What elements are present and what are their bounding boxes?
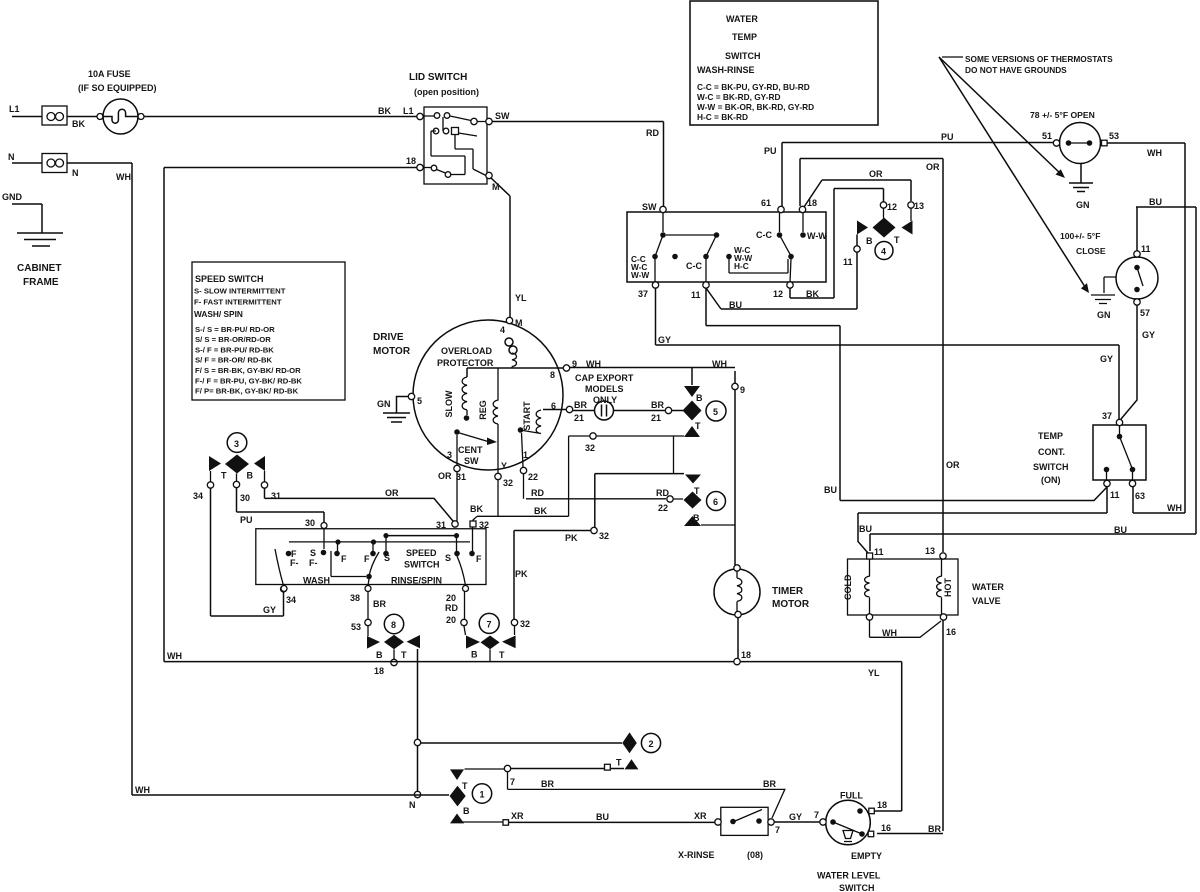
svg-text:N: N [72,168,79,178]
svg-text:PU: PU [764,146,777,156]
svg-text:GND: GND [2,192,23,202]
svg-text:21: 21 [651,413,661,423]
svg-text:C-C: C-C [686,261,702,271]
svg-text:SWITCH: SWITCH [839,883,875,892]
svg-text:SWITCH: SWITCH [1033,462,1069,472]
svg-text:12: 12 [887,202,897,212]
svg-text:S: S [384,553,390,563]
svg-text:COLD: COLD [843,574,853,600]
svg-text:BK: BK [72,119,85,129]
svg-text:SWITCH: SWITCH [404,560,440,570]
svg-text:N: N [409,800,416,810]
svg-text:WASH/ SPIN: WASH/ SPIN [194,309,243,319]
svg-text:11: 11 [1141,244,1151,254]
svg-text:16: 16 [881,823,891,833]
svg-text:5: 5 [417,396,422,406]
svg-text:H-C = BK-RD: H-C = BK-RD [697,112,748,122]
svg-text:10A FUSE: 10A FUSE [88,69,131,79]
svg-text:MODELS: MODELS [585,384,624,394]
svg-text:6: 6 [713,497,718,507]
svg-text:GN: GN [1076,200,1090,210]
svg-text:PK: PK [565,533,578,543]
svg-text:OR: OR [385,488,399,498]
svg-text:32: 32 [503,478,513,488]
svg-text:T: T [616,758,622,768]
svg-text:BU: BU [859,524,872,534]
svg-text:CABINET: CABINET [17,263,61,274]
svg-text:SLOW: SLOW [444,390,454,418]
svg-text:B: B [247,471,254,481]
svg-text:S: S [310,548,316,558]
svg-text:WH: WH [882,628,897,638]
svg-text:7: 7 [487,620,492,630]
svg-text:18: 18 [374,666,384,676]
svg-text:B: B [376,650,383,660]
svg-text:T: T [499,650,505,660]
svg-text:WH: WH [1167,503,1182,513]
svg-text:START: START [522,401,532,431]
svg-text:SPEED: SPEED [406,548,437,558]
svg-text:53: 53 [351,622,361,632]
svg-text:F: F [341,554,347,564]
svg-text:GN: GN [377,399,391,409]
svg-text:WH: WH [135,785,150,795]
svg-text:BK: BK [378,106,391,116]
svg-text:7: 7 [775,825,780,835]
svg-text:T: T [462,781,468,791]
svg-text:F: F [476,554,482,564]
svg-text:B: B [463,806,470,816]
svg-text:SOME VERSIONS OF THERMOSTATS: SOME VERSIONS OF THERMOSTATS [965,54,1113,64]
svg-text:F-: F- [290,558,299,568]
svg-text:GN: GN [1097,310,1111,320]
svg-text:TEMP: TEMP [1038,431,1063,441]
svg-text:T: T [894,235,900,245]
svg-text:PU: PU [941,132,954,142]
svg-text:N: N [8,152,15,162]
svg-text:PK: PK [515,569,528,579]
svg-text:30: 30 [240,493,250,503]
svg-text:WATER: WATER [726,14,758,24]
svg-text:B: B [696,393,703,403]
svg-text:(08): (08) [747,850,763,860]
svg-text:SW: SW [464,456,479,466]
svg-text:F-/ F = BR-PU, GY-BK/ RD-BK: F-/ F = BR-PU, GY-BK/ RD-BK [195,377,302,386]
svg-text:S/ S = BR-OR/RD-OR: S/ S = BR-OR/RD-OR [195,335,271,344]
svg-text:WATER: WATER [972,582,1004,592]
svg-text:VALVE: VALVE [972,596,1001,606]
svg-text:WASH: WASH [303,576,330,586]
svg-text:XR: XR [694,811,707,821]
svg-text:BU: BU [1114,525,1127,535]
svg-text:(ON): (ON) [1041,475,1061,485]
svg-text:37: 37 [1102,411,1112,421]
svg-text:16: 16 [946,627,956,637]
svg-text:TEMP: TEMP [732,32,757,42]
svg-text:GY: GY [263,605,276,615]
svg-text:DRIVE: DRIVE [373,332,404,343]
svg-text:WH: WH [116,172,131,182]
svg-text:53: 53 [1109,131,1119,141]
svg-text:2: 2 [649,739,654,749]
svg-text:GY: GY [1100,354,1113,364]
svg-text:T: T [221,471,227,481]
svg-text:22: 22 [658,503,668,513]
svg-text:18: 18 [741,650,751,660]
svg-text:WATER LEVEL: WATER LEVEL [817,871,881,881]
svg-text:18: 18 [406,156,416,166]
svg-text:5: 5 [713,407,718,417]
svg-text:BR: BR [541,779,554,789]
svg-text:BK: BK [470,504,483,514]
svg-text:11: 11 [691,290,701,300]
svg-text:EMPTY: EMPTY [851,851,882,861]
svg-text:LID SWITCH: LID SWITCH [409,72,467,83]
svg-text:12: 12 [773,289,783,299]
svg-text:WH: WH [167,651,182,661]
svg-text:78 +/- 5°F OPEN: 78 +/- 5°F OPEN [1030,110,1095,120]
svg-text:C-C = BK-PU, GY-RD, BU-RD: C-C = BK-PU, GY-RD, BU-RD [697,82,810,92]
svg-text:W-W: W-W [631,270,649,280]
svg-text:DO NOT HAVE GROUNDS: DO NOT HAVE GROUNDS [965,65,1067,75]
svg-text:B: B [866,236,873,246]
svg-text:L1: L1 [403,106,414,116]
svg-text:1: 1 [523,450,528,460]
svg-text:9: 9 [740,385,745,395]
svg-text:CLOSE: CLOSE [1076,246,1106,256]
svg-text:XR: XR [511,811,524,821]
svg-text:11: 11 [1110,490,1120,500]
svg-text:OR: OR [869,169,883,179]
svg-text:57: 57 [1140,308,1150,318]
svg-text:BR: BR [763,779,776,789]
svg-text:34: 34 [193,491,203,501]
svg-text:22: 22 [528,472,538,482]
svg-text:63: 63 [1135,491,1145,501]
svg-text:TIMER: TIMER [772,586,804,597]
svg-text:F/ S = BR-BK, GY-BK/ RD-OR: F/ S = BR-BK, GY-BK/ RD-OR [195,366,301,375]
svg-text:WASH-RINSE: WASH-RINSE [697,65,755,75]
svg-text:51: 51 [1042,131,1052,141]
svg-text:3: 3 [447,450,452,460]
svg-text:34: 34 [286,595,296,605]
svg-text:13: 13 [925,546,935,556]
svg-text:F- FAST INTERMITTENT: F- FAST INTERMITTENT [194,298,282,307]
svg-text:38: 38 [350,593,360,603]
svg-text:CAP EXPORT: CAP EXPORT [575,373,634,383]
svg-text:C-C: C-C [756,230,772,240]
svg-text:MOTOR: MOTOR [772,599,810,610]
svg-text:FULL: FULL [840,791,863,801]
svg-text:BR: BR [928,824,941,834]
svg-text:REG: REG [478,400,488,420]
svg-text:S- SLOW INTERMITTENT: S- SLOW INTERMITTENT [194,287,286,296]
svg-text:CONT.: CONT. [1038,447,1065,457]
svg-text:GY: GY [658,335,671,345]
svg-text:8: 8 [391,620,396,630]
svg-text:BR: BR [651,400,664,410]
svg-text:13: 13 [914,201,924,211]
svg-text:M: M [515,318,523,328]
svg-text:(open position): (open position) [414,87,479,97]
svg-text:BU: BU [596,812,609,822]
svg-text:3: 3 [234,439,239,449]
svg-text:31: 31 [271,491,281,501]
svg-text:RD: RD [531,488,544,498]
svg-text:S-/ F = BR-PU/ RD-BK: S-/ F = BR-PU/ RD-BK [195,346,274,355]
svg-text:OR: OR [926,162,940,172]
svg-text:F: F [364,554,370,564]
svg-text:7: 7 [510,777,515,787]
svg-text:B: B [471,650,478,660]
svg-text:21: 21 [574,413,584,423]
svg-text:RD: RD [646,128,659,138]
svg-text:(IF SO EQUIPPED): (IF SO EQUIPPED) [78,83,157,93]
svg-text:S: S [445,553,451,563]
svg-text:B: B [693,513,700,523]
svg-text:W-W: W-W [807,231,827,241]
svg-text:YL: YL [868,668,880,678]
svg-text:32: 32 [520,619,530,629]
svg-text:BR: BR [373,599,386,609]
svg-text:L1: L1 [9,104,20,114]
svg-text:RINSE/SPIN: RINSE/SPIN [391,576,442,586]
svg-text:PU: PU [240,515,253,525]
svg-text:SPEED SWITCH: SPEED SWITCH [195,274,264,284]
svg-text:WH: WH [1147,148,1162,158]
svg-text:T: T [694,486,700,496]
svg-text:BU: BU [1149,197,1162,207]
svg-text:RD: RD [445,603,458,613]
svg-text:BU: BU [824,485,837,495]
svg-text:20: 20 [446,593,456,603]
svg-text:11: 11 [874,547,884,557]
svg-text:OR: OR [438,471,452,481]
svg-text:20: 20 [446,615,456,625]
svg-text:4: 4 [881,247,886,257]
svg-text:GY: GY [789,812,802,822]
svg-text:WH: WH [712,359,727,369]
svg-text:BU: BU [729,300,742,310]
svg-text:OR: OR [946,460,960,470]
svg-text:1: 1 [480,790,485,800]
svg-text:W-C = BK-RD, GY-RD: W-C = BK-RD, GY-RD [697,92,781,102]
svg-text:T: T [401,650,407,660]
svg-text:YL: YL [515,293,527,303]
svg-text:GY: GY [1142,330,1155,340]
svg-text:RD: RD [656,488,669,498]
svg-text:4: 4 [500,325,505,335]
svg-text:7: 7 [814,810,819,820]
svg-text:32: 32 [599,531,609,541]
svg-text:32: 32 [585,443,595,453]
svg-text:BR: BR [574,400,587,410]
svg-text:6: 6 [551,401,556,411]
svg-text:W-W = BK-OR, BK-RD, GY-RD: W-W = BK-OR, BK-RD, GY-RD [697,102,814,112]
svg-text:11: 11 [843,257,853,267]
svg-text:PROTECTOR: PROTECTOR [437,358,494,368]
svg-text:BK: BK [806,289,819,299]
svg-text:Y: Y [501,461,507,471]
svg-text:S/ F = BR-OR/ RD-BK: S/ F = BR-OR/ RD-BK [195,356,273,365]
svg-text:X-RINSE: X-RINSE [678,850,715,860]
svg-text:CENT: CENT [458,445,483,455]
svg-text:F/ P= BR-BK, GY-BK/ RD-BK: F/ P= BR-BK, GY-BK/ RD-BK [195,387,299,396]
svg-text:SW: SW [642,202,657,212]
svg-text:100+/- 5°F: 100+/- 5°F [1060,231,1100,241]
svg-text:HOT: HOT [943,578,953,598]
svg-text:37: 37 [638,289,648,299]
svg-text:S-/ S = BR-PU/ RD-OR: S-/ S = BR-PU/ RD-OR [195,325,275,334]
svg-text:18: 18 [877,800,887,810]
svg-text:T: T [695,421,701,431]
svg-text:FRAME: FRAME [23,277,59,288]
svg-text:F-: F- [309,558,318,568]
svg-text:MOTOR: MOTOR [373,346,411,357]
svg-text:OVERLOAD: OVERLOAD [441,346,493,356]
svg-text:61: 61 [761,198,771,208]
svg-text:SWITCH: SWITCH [725,51,761,61]
svg-text:30: 30 [305,518,315,528]
svg-text:8: 8 [550,370,555,380]
svg-text:SW: SW [495,111,510,121]
svg-text:H-C: H-C [734,261,749,271]
svg-text:BK: BK [534,506,547,516]
